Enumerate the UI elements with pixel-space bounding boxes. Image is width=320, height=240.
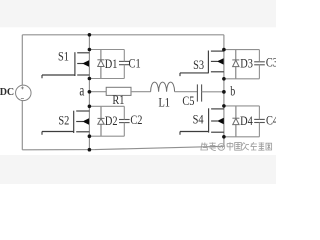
transistor S1 <box>42 52 89 78</box>
transistor S4 arrow <box>217 118 224 124</box>
svg-text:C3: C3 <box>266 57 276 70</box>
transistor S3 <box>180 51 224 77</box>
node: box1 bottom junction <box>88 77 92 81</box>
wire: snubber box S3 top/right/bottom edges <box>224 50 260 79</box>
watermark 头条@中国汽车质量网 <box>201 142 272 150</box>
wire: snubber box S2 top/right/bottom edges <box>89 106 124 136</box>
node: box2 top junction <box>88 105 92 109</box>
svg-text:D2: D2 <box>105 115 118 128</box>
wire: L1 to C5 <box>175 91 198 93</box>
transistor S4 <box>180 108 224 134</box>
svg-text:S2: S2 <box>58 115 69 128</box>
diode D2 <box>98 106 105 136</box>
node: box4 top junction <box>222 104 226 108</box>
node: S1 drain / top rail junction <box>88 33 92 37</box>
wire: left bridge rail (S1/S2 leg) <box>88 35 90 150</box>
capacitor C3 <box>254 62 265 65</box>
wire: right rail drop from top <box>223 35 225 50</box>
diode D3 <box>232 50 239 79</box>
wire: snubber box S1 top/right/bottom edges <box>89 50 124 79</box>
svg-text:S4: S4 <box>193 114 204 127</box>
wire: R1 to L1 <box>131 91 151 93</box>
wire: top rail (+ bus) <box>22 34 224 36</box>
svg-text:a: a <box>79 82 84 99</box>
node a <box>88 90 92 94</box>
wire: C5 to node b <box>202 91 224 93</box>
capacitor C4 <box>254 119 265 122</box>
wire: right bridge rail (S3/S4 leg) <box>223 50 225 147</box>
svg-text:C5: C5 <box>182 95 194 108</box>
svg-text:DC: DC <box>0 87 14 98</box>
node: box3 top junction <box>222 48 226 52</box>
svg-text:S3: S3 <box>193 59 204 72</box>
capacitor C2 <box>119 120 130 123</box>
svg-text:D3: D3 <box>240 58 253 71</box>
transistor S3 arrow <box>217 58 224 64</box>
svg-text:D4: D4 <box>240 115 253 128</box>
node: S2 source / bottom rail junction <box>88 148 92 152</box>
resistor R1 <box>106 87 131 95</box>
svg-text:R1: R1 <box>112 95 124 108</box>
svg-text:b: b <box>230 83 235 99</box>
transistor S2 <box>42 111 89 135</box>
svg-text:C2: C2 <box>130 115 142 128</box>
transistor S2 arrow <box>82 118 89 124</box>
node: box3 bottom junction <box>222 77 226 81</box>
node: box1 top junction <box>88 48 92 52</box>
node: box2 bottom junction <box>88 134 92 138</box>
svg-text:L1: L1 <box>158 97 170 110</box>
svg-text:C1: C1 <box>129 58 141 71</box>
diode D1 <box>97 50 104 79</box>
wire: bottom rail (- bus, slightly tilted) <box>22 146 224 150</box>
node b <box>222 90 226 94</box>
svg-text:C4: C4 <box>266 115 276 128</box>
wire: node a to R1 <box>89 91 106 93</box>
inductor L1 <box>151 82 175 92</box>
capacitor C5 <box>197 84 201 101</box>
wire: left rail lower <box>21 101 23 150</box>
diode D4 <box>232 106 239 137</box>
wire: snubber box S4 top/right/bottom edges <box>224 106 260 137</box>
transistor S1 arrow <box>82 60 89 66</box>
svg-text:S1: S1 <box>58 51 69 64</box>
svg-text:D1: D1 <box>105 58 118 71</box>
capacitor C1 <box>119 61 130 64</box>
wire: left rail upper <box>21 35 23 86</box>
node: box4 bottom junction <box>222 135 226 139</box>
source V1 DC <box>0 85 31 101</box>
